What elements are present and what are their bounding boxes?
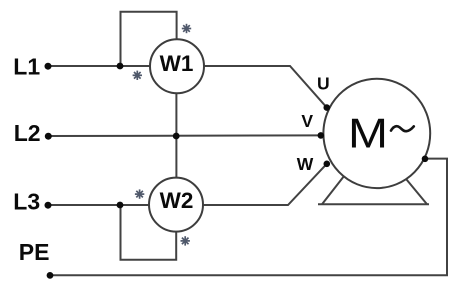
svg-text:W2: W2: [160, 188, 194, 213]
svg-text:W: W: [297, 154, 314, 174]
svg-text:M: M: [348, 109, 388, 156]
svg-text:V: V: [301, 111, 313, 131]
svg-text:U: U: [317, 74, 330, 94]
svg-text:L3: L3: [13, 189, 40, 215]
svg-text:PE: PE: [19, 239, 50, 265]
svg-text:W1: W1: [160, 51, 194, 76]
svg-text:L1: L1: [13, 54, 40, 80]
svg-text:L2: L2: [14, 120, 41, 146]
